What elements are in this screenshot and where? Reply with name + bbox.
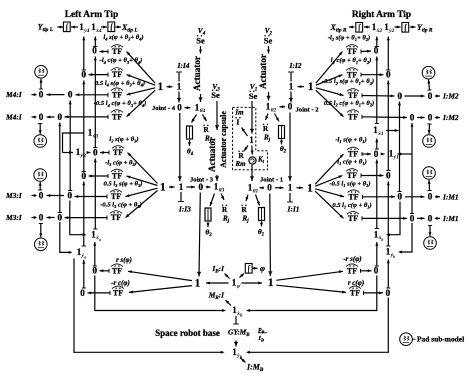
wire fan L-top bbox=[127, 88, 156, 95]
svg-text:0: 0 bbox=[93, 266, 98, 276]
svg-text:0: 0 bbox=[428, 192, 433, 202]
svg-text:1: 1 bbox=[158, 81, 164, 93]
bond 1phi to int box bbox=[240, 274, 245, 278]
svg-text:Rm: Rm bbox=[234, 160, 246, 168]
bond 0 to MTF Ltop3 bbox=[76, 94, 109, 96]
svg-text:θ̇2: θ̇2 bbox=[271, 106, 277, 113]
wire GY to 1yB bbox=[235, 341, 237, 347]
svg-text:TF: TF bbox=[113, 148, 123, 157]
bond actuator to 1th3 bbox=[216, 175, 218, 181]
svg-text:ẋ3: ẋ3 bbox=[92, 134, 99, 140]
wire fan R-mid bbox=[315, 189, 344, 197]
bond spring J2 out bbox=[281, 140, 283, 145]
wire branch 1x3 bbox=[63, 133, 84, 153]
svg-text:ẋb​: ẋb​ bbox=[378, 235, 384, 242]
integrator box right-Y bbox=[402, 23, 409, 33]
svg-text:-l4​ c(φ + θ3​+ θ4​): -l4​ c(φ + θ3​+ θ4​) bbox=[100, 57, 143, 65]
svg-text:0.5 l2​ c(φ + θ1​+ θ2​): 0.5 l2​ c(φ + θ1​+ θ2​) bbox=[324, 100, 374, 108]
svg-text:0: 0 bbox=[58, 212, 63, 222]
svg-text:Se: Se bbox=[249, 91, 258, 101]
svg-text:ẏ3: ẏ3 bbox=[80, 153, 86, 159]
bond Se to actuator J2 bbox=[268, 46, 270, 54]
wire rail inner-c bbox=[399, 102, 401, 192]
bond 1 to Rm bbox=[244, 146, 248, 152]
bond Se to capsule 1 bbox=[251, 101, 253, 134]
svg-text:0: 0 bbox=[374, 149, 379, 159]
bond Se to actuator J3 bbox=[216, 101, 218, 130]
svg-text:ẋ1: ẋ1 bbox=[377, 131, 384, 137]
svg-text:ẏ4: ẏ4 bbox=[83, 28, 89, 34]
wire rail inner-a low bbox=[70, 201, 85, 235]
bond 1 to 0 J4 bbox=[178, 92, 180, 103]
svg-text:M4:I: M4:I bbox=[5, 113, 23, 122]
bond 0 to 1th1 bbox=[260, 187, 265, 189]
wire rail y2 mid2 bbox=[387, 182, 389, 247]
svg-text:TF: TF bbox=[112, 112, 122, 121]
svg-text:r c(φ): r c(φ) bbox=[348, 279, 364, 287]
bond 0 to MTF Lbase2 bbox=[88, 292, 111, 294]
svg-text:TF: TF bbox=[348, 91, 358, 100]
wire rail x2 to base bbox=[248, 276, 377, 311]
pad sub-model L3 bbox=[34, 169, 47, 182]
bond 0-0 M2 r2 bbox=[417, 117, 425, 119]
wire rail y4 top bbox=[83, 37, 85, 71]
bond 0-0 M3 r1 bbox=[47, 195, 65, 197]
svg-text:TF: TF bbox=[111, 213, 121, 222]
svg-text:ẋ2: ẋ2 bbox=[376, 28, 383, 34]
wire pad R2 bbox=[428, 124, 431, 134]
wire rail y2 top bbox=[387, 37, 389, 71]
bond 0 to M4:I r2 bbox=[32, 116, 37, 118]
svg-text:θ̇4: θ̇4 bbox=[200, 107, 206, 114]
svg-text:1: 1 bbox=[288, 183, 293, 193]
wire rail base-y left bbox=[74, 259, 223, 353]
svg-text:Se: Se bbox=[264, 36, 273, 46]
wire rail y2 low bbox=[387, 260, 389, 289]
svg-text:I:I1: I:I1 bbox=[287, 204, 300, 213]
bond 0 to 1 J1 bbox=[275, 187, 284, 189]
svg-text:TF: TF bbox=[112, 172, 122, 181]
bond 1th1 to R J1 bbox=[246, 195, 248, 202]
wire rail x2 top bbox=[376, 37, 378, 47]
bond 1yB to I:MB bbox=[240, 358, 246, 363]
svg-text:TF: TF bbox=[112, 70, 122, 79]
svg-text:1: 1 bbox=[307, 182, 313, 194]
wire rail inner-b low bbox=[60, 222, 71, 252]
svg-text:0: 0 bbox=[39, 190, 44, 200]
svg-text:0: 0 bbox=[58, 112, 63, 122]
bond 0 to 1th2 J2 bbox=[280, 106, 286, 108]
bond 1th2 to R J2 bbox=[266, 114, 269, 121]
bond 1phi to IB bbox=[225, 274, 230, 279]
bond spring J3 out bbox=[207, 222, 209, 227]
wire fan base-right 2 bbox=[276, 285, 346, 292]
bond spring J1 out bbox=[261, 222, 263, 227]
svg-text:0: 0 bbox=[177, 103, 182, 113]
svg-text:ẏa​: ẏa​ bbox=[81, 253, 86, 260]
wire 1 to I:I2 bbox=[290, 72, 292, 82]
wire rail y4 mid1 bbox=[83, 81, 85, 172]
svg-text:0: 0 bbox=[39, 90, 44, 100]
svg-text:0: 0 bbox=[428, 112, 433, 122]
legend pad text bbox=[413, 338, 416, 340]
integrator box right-X bbox=[356, 23, 363, 33]
svg-text:0: 0 bbox=[410, 213, 415, 223]
svg-text:r s(φ): r s(φ) bbox=[116, 256, 132, 264]
svg-text:0: 0 bbox=[80, 288, 85, 298]
svg-text:Actuator: Actuator bbox=[192, 56, 202, 91]
pad sub-model L1 bbox=[35, 66, 48, 79]
svg-text:TF: TF bbox=[348, 192, 358, 201]
wire rail inner-d bbox=[411, 123, 413, 214]
svg-text:R: R bbox=[238, 151, 244, 160]
wire J1-0 to base 1 bbox=[269, 194, 272, 277]
bond 0 to I:M1 r1 bbox=[435, 196, 440, 198]
svg-text:I:M1: I:M1 bbox=[442, 214, 459, 223]
svg-text:0.5 l3​ s(φ + θ3​): 0.5 l3​ s(φ + θ3​) bbox=[104, 180, 143, 188]
bond 0 to I:M2 r2 bbox=[435, 117, 440, 119]
bond 0 to M3:I r1 bbox=[32, 195, 37, 197]
svg-text:I:M2: I:M2 bbox=[442, 92, 459, 101]
svg-text:Space robot base: Space robot base bbox=[155, 328, 220, 338]
svg-text:I: I bbox=[237, 118, 240, 127]
bond MTF Rtop4 to 0 bbox=[362, 116, 407, 119]
bond 0 to MTF Lmid4 bbox=[65, 217, 108, 219]
bond MTF Rmid2 to 0 bbox=[361, 175, 384, 177]
bond 0 to MTF Lbase1 bbox=[100, 270, 110, 272]
svg-text:0: 0 bbox=[386, 288, 391, 298]
bond actuator to 1th4 bbox=[200, 94, 202, 102]
svg-text:TF: TF bbox=[112, 47, 122, 56]
wire fan L-mid bbox=[126, 191, 158, 218]
svg-text:TF: TF bbox=[347, 171, 357, 180]
svg-text:TF: TF bbox=[112, 90, 122, 99]
bond big1 to 1 J3 bbox=[169, 186, 175, 188]
svg-text:Right Arm Tip: Right Arm Tip bbox=[352, 10, 411, 20]
bond box to Y_tipL bbox=[58, 26, 64, 28]
wire branch to 1y3 bbox=[63, 152, 74, 154]
wire branch 1x1 bbox=[386, 130, 399, 132]
wire pad L1 bbox=[40, 79, 42, 89]
svg-text:1: 1 bbox=[177, 82, 182, 92]
svg-text:1: 1 bbox=[308, 81, 314, 93]
svg-text:-0.5 l1​ s(φ + θ1​): -0.5 l1​ s(φ + θ1​) bbox=[329, 181, 370, 189]
svg-text:0: 0 bbox=[199, 182, 204, 192]
svg-text:ẋB​: ẋB​ bbox=[236, 311, 243, 318]
svg-text:Left Arm Tip: Left Arm Tip bbox=[65, 10, 119, 20]
bond 0 to MTF Lmid1 bbox=[100, 152, 109, 154]
bond Se to actuator J4 bbox=[200, 46, 202, 54]
svg-text:M4:I: M4:I bbox=[5, 90, 23, 99]
bond 0-0 M2 r1 bbox=[405, 95, 425, 97]
bond 1y4 to box bbox=[71, 26, 78, 28]
bond box to X_tipR bbox=[349, 26, 355, 28]
bond 0 to I:M1 r2 bbox=[435, 217, 440, 219]
svg-text:TF: TF bbox=[347, 47, 357, 56]
svg-text:Actuator: Actuator bbox=[258, 54, 268, 89]
integrator box phi bbox=[245, 264, 252, 274]
bond MTF Rtop3 to 0 bbox=[362, 95, 395, 98]
wire fan base-right 1 bbox=[276, 271, 343, 280]
svg-text:0: 0 bbox=[398, 91, 403, 101]
wire fan L-mid bbox=[126, 188, 158, 196]
wire J2 to J1 bbox=[289, 113, 291, 182]
svg-text:θ̇3: θ̇3 bbox=[219, 187, 225, 194]
bond 0 to 1th3 J3 bbox=[206, 186, 211, 188]
wire pad R1 bbox=[429, 80, 430, 90]
svg-text:0.5 l1​ c(φ + θ1​): 0.5 l1​ c(φ + θ1​) bbox=[332, 202, 371, 210]
bond 1th1 to spring J1 bbox=[256, 195, 260, 206]
bond MTF Rbase1 to 0 bbox=[361, 270, 372, 272]
bond 1 to GY bbox=[251, 146, 254, 155]
wire branch to 1y1 bbox=[398, 153, 413, 155]
wire fan base-left 1 bbox=[128, 271, 192, 280]
wire fan L-top bbox=[127, 75, 156, 86]
bond 0-0 M4 r2 bbox=[47, 116, 55, 118]
wire rail y4 low bbox=[83, 260, 85, 288]
wire rail x2 mid0 bbox=[376, 57, 378, 124]
svg-text:ẏ2: ẏ2 bbox=[388, 28, 394, 34]
wire rail x2 mid1 bbox=[376, 139, 378, 150]
bond MTF Rtop2 to 0 bbox=[361, 74, 384, 76]
wire fan base-left 2 bbox=[129, 286, 192, 293]
svg-text:1: 1 bbox=[179, 182, 184, 192]
bond 1phi to base-right bbox=[242, 282, 263, 284]
wire J3-0 to base 1 bbox=[199, 193, 200, 277]
svg-text:-0.5 l4​ c(φ + θ3​+ θ4​): -0.5 l4​ c(φ + θ3​+ θ4​) bbox=[94, 100, 147, 108]
svg-text:0: 0 bbox=[68, 190, 73, 200]
svg-text:M3:I: M3:I bbox=[5, 213, 23, 222]
svg-text:0: 0 bbox=[288, 102, 293, 112]
svg-text:Actuator capsule: Actuator capsule bbox=[219, 111, 228, 168]
bond 0-0 M1 r2 bbox=[417, 217, 425, 219]
bond 1 to 0 J2 bbox=[290, 92, 292, 103]
svg-text:TF: TF bbox=[112, 266, 122, 275]
wire rail inner-d low bbox=[400, 223, 412, 252]
bond int to phi bbox=[253, 267, 258, 269]
wire fan R-top bbox=[316, 90, 344, 117]
svg-text:TF: TF bbox=[348, 150, 358, 159]
svg-text:l4​ s(φ + θ3​+ θ4​): l4​ s(φ + θ3​+ θ4​) bbox=[103, 34, 143, 42]
svg-text:-0.5 l3​ c(φ + θ3​): -0.5 l3​ c(φ + θ3​) bbox=[100, 201, 142, 209]
svg-text:ẏb​: ẏb​ bbox=[390, 253, 395, 260]
bond 0 to I:M2 r1 bbox=[435, 95, 440, 97]
wire 0 to 1y1 bbox=[381, 153, 385, 155]
svg-text:0: 0 bbox=[374, 46, 379, 56]
svg-text:1: 1 bbox=[160, 182, 166, 194]
wire 1 to I:I4 bbox=[178, 72, 180, 82]
bond 1 to big1 J1 bbox=[297, 187, 304, 189]
svg-text:-r s(φ): -r s(φ) bbox=[343, 255, 361, 263]
wire fan R-top bbox=[316, 88, 344, 96]
wire rail inner-a bbox=[69, 101, 71, 191]
bond 1th3 to spring bbox=[210, 194, 215, 207]
wire rail x4 top bbox=[94, 37, 96, 47]
svg-text:1: 1 bbox=[195, 278, 201, 290]
wire J4 to J3 bbox=[179, 113, 181, 181]
bond 0 to MTF Ltop4 bbox=[65, 116, 109, 118]
wire rail x2 mid2 bbox=[376, 160, 378, 229]
svg-text:-r c(φ): -r c(φ) bbox=[111, 279, 130, 287]
wire rail y2 to base bbox=[248, 298, 388, 353]
svg-text:0: 0 bbox=[93, 147, 98, 157]
spring J2 bbox=[279, 126, 285, 139]
bond box to Y_tipR bbox=[410, 26, 416, 28]
wire rail x4 mid1 bbox=[94, 57, 96, 148]
svg-text:TF: TF bbox=[348, 214, 358, 223]
wire 1xB to GY bbox=[235, 316, 237, 324]
wire pad R3 bbox=[428, 180, 431, 191]
wire pad R4 bbox=[429, 226, 431, 237]
bond 1x4 to box bbox=[101, 26, 107, 28]
svg-text:I:M2: I:M2 bbox=[442, 113, 459, 122]
bond 1th3 to R J3 bbox=[221, 194, 224, 201]
svg-text:1: 1 bbox=[289, 82, 294, 92]
bond big1 to 1 J2 bbox=[298, 86, 305, 88]
wire fan L-mid bbox=[128, 153, 158, 184]
wire rail y2 mid1 bbox=[387, 81, 389, 171]
svg-text:0: 0 bbox=[428, 91, 433, 101]
svg-text:0: 0 bbox=[410, 112, 415, 122]
bond MTF Rtop1 to 0 bbox=[361, 50, 371, 53]
svg-text:-l2​ s(φ + θ1​+ θ2​): -l2​ s(φ + θ1​+ θ2​) bbox=[328, 35, 370, 43]
bond MTF Rmid4 to 0 bbox=[362, 217, 407, 219]
wire fan R-mid bbox=[315, 176, 342, 187]
svg-text:0: 0 bbox=[39, 212, 44, 222]
svg-text:0: 0 bbox=[68, 90, 73, 100]
wire pad L2 bbox=[39, 124, 41, 135]
bond 0 to 1th4 J4 bbox=[185, 107, 191, 109]
bond big1 to 1 J4 bbox=[167, 86, 173, 88]
wire 1 to I:I3 bbox=[180, 192, 182, 202]
svg-text:I:I4: I:I4 bbox=[177, 61, 190, 70]
wire rail y4 mid2 bbox=[83, 182, 85, 247]
svg-text:Se: Se bbox=[196, 36, 205, 46]
svg-text:TF: TF bbox=[348, 112, 358, 121]
svg-text:Pad sub-model: Pad sub-model bbox=[417, 335, 464, 344]
svg-text:φ: φ bbox=[260, 263, 265, 273]
pad sub-model R2 bbox=[423, 135, 436, 148]
bond spring J4 out bbox=[189, 140, 191, 146]
gyrator GY Kt bbox=[249, 157, 256, 164]
svg-text:ẋa​: ẋa​ bbox=[95, 235, 101, 242]
svg-text:M3:I: M3:I bbox=[5, 191, 23, 200]
legend pad circle bbox=[400, 333, 413, 346]
pad sub-model R4 bbox=[424, 237, 437, 250]
wire fan R-mid bbox=[315, 154, 343, 184]
bond 1xB to MB bbox=[226, 300, 232, 306]
svg-text:θ̇1: θ̇1 bbox=[253, 187, 259, 194]
svg-text:0: 0 bbox=[92, 46, 97, 56]
wire fan L-top bbox=[127, 90, 156, 117]
wire fan L-mid bbox=[127, 176, 158, 186]
wire rail inner-c low bbox=[388, 202, 400, 235]
bond 1th2 to spring bbox=[275, 114, 280, 122]
wire pad L3 bbox=[39, 182, 41, 190]
svg-text:Joint - 4: Joint - 4 bbox=[152, 105, 176, 112]
bond 0 to MTF Lmid2 bbox=[89, 175, 109, 177]
svg-text:TF: TF bbox=[350, 289, 360, 298]
svg-text:ẋ4: ẋ4 bbox=[95, 28, 102, 34]
bond MTF Rbase2 to 0 bbox=[364, 292, 384, 294]
bond MTF Rmid3 to 0 bbox=[363, 196, 396, 198]
svg-text:0: 0 bbox=[428, 213, 433, 223]
wire 1y3 to 0 bbox=[87, 152, 91, 154]
bond 0-0 M3 r2 bbox=[47, 217, 55, 219]
svg-text:Joint - 2: Joint - 2 bbox=[296, 107, 319, 114]
bond 1 to 0 J3 bbox=[187, 186, 196, 188]
svg-text:I:I2: I:I2 bbox=[289, 61, 302, 70]
wire rail x2 low bbox=[376, 242, 378, 266]
wire rail inner-b bbox=[59, 123, 61, 213]
actuator capsule box bbox=[233, 107, 268, 169]
svg-text:1: 1 bbox=[268, 277, 274, 289]
pad sub-model L4 bbox=[35, 238, 48, 251]
wire rail x4 to base bbox=[95, 276, 224, 311]
svg-text:0: 0 bbox=[39, 112, 44, 122]
bond 0 to MTF Lmid3 bbox=[75, 196, 108, 198]
svg-text:0: 0 bbox=[386, 170, 391, 180]
wire fan R-mid bbox=[315, 191, 343, 218]
svg-text:0: 0 bbox=[267, 183, 272, 193]
bond 1 to Im bbox=[242, 128, 248, 137]
pad sub-model L2 bbox=[34, 135, 47, 148]
svg-text:0: 0 bbox=[82, 70, 87, 80]
svg-text:Se: Se bbox=[211, 90, 220, 100]
bond 1x2 to box bbox=[364, 26, 370, 28]
svg-text:1: 1 bbox=[249, 135, 254, 145]
svg-text:ẏ1: ẏ1 bbox=[393, 155, 399, 161]
bond 0 to MTF Ltop2 bbox=[89, 74, 109, 76]
bond actuator to 1th2 bbox=[268, 92, 270, 101]
svg-text:l1​ c(φ + θ1​): l1​ c(φ + θ1​) bbox=[337, 159, 367, 167]
svg-text:TF: TF bbox=[113, 289, 123, 298]
wire fan R-top bbox=[316, 75, 343, 86]
spring J3 bbox=[205, 208, 211, 221]
bond 0-0 M4 r1 bbox=[47, 94, 65, 96]
svg-text:I:I3: I:I3 bbox=[178, 204, 191, 213]
wire 1 to I:I1 bbox=[289, 193, 291, 202]
bond 1phi to base-left bbox=[206, 282, 229, 284]
wire fan L-top bbox=[127, 52, 156, 84]
svg-text:I:M1: I:M1 bbox=[442, 192, 459, 201]
pad sub-model R3 bbox=[423, 167, 436, 180]
svg-text:0: 0 bbox=[398, 192, 403, 202]
wire fan R-top bbox=[316, 52, 343, 84]
svg-text:0: 0 bbox=[374, 266, 379, 276]
bond 1th4 to spring bbox=[192, 115, 197, 123]
spring J4 bbox=[187, 126, 193, 139]
integrator box left-Y bbox=[63, 22, 70, 32]
bond GY to 1th1 bbox=[251, 165, 253, 181]
svg-text:Actuator: Actuator bbox=[207, 137, 217, 172]
bond 1y2 to box bbox=[395, 26, 401, 28]
bond 1th4 to R J4 bbox=[203, 115, 207, 122]
svg-text:Im: Im bbox=[234, 109, 244, 117]
spring J1 bbox=[259, 208, 265, 221]
svg-text:TF: TF bbox=[347, 266, 357, 275]
pad sub-model R1 bbox=[422, 66, 435, 79]
bond 0 to M4:I r1 bbox=[32, 94, 37, 96]
wire rail x4 mid2 bbox=[94, 159, 96, 230]
wire pad L4 bbox=[40, 224, 42, 238]
svg-text:0: 0 bbox=[386, 70, 391, 80]
svg-text:TF: TF bbox=[111, 192, 121, 201]
bond MTF Rmid1 to 0 bbox=[362, 153, 371, 155]
integrator box left-X bbox=[108, 22, 115, 32]
svg-text:0.5 l4​ s(φ + θ3​+ θ4​): 0.5 l4​ s(φ + θ3​+ θ4​) bbox=[95, 80, 145, 88]
wire rail x4 low bbox=[94, 242, 96, 266]
